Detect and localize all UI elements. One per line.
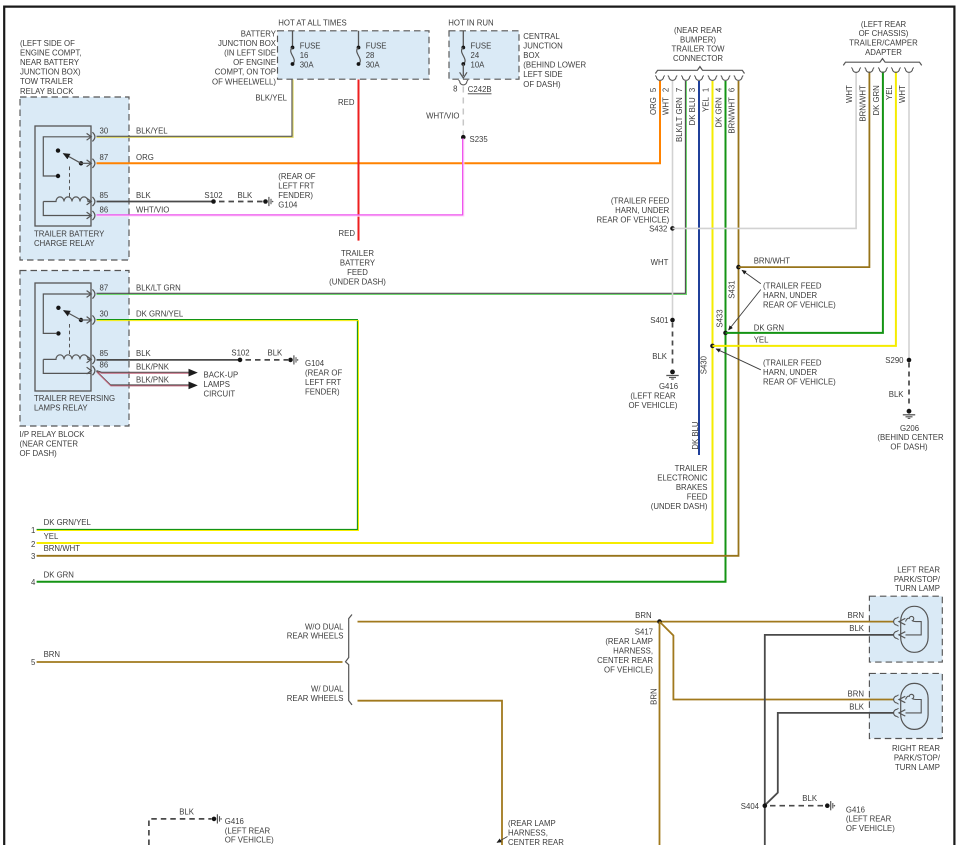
note: left rear park/stop/turn lamp xyxy=(894,565,941,593)
svg-text:FEED: FEED xyxy=(347,268,368,277)
svg-text:HARN, UNDER: HARN, UNDER xyxy=(615,206,670,215)
svg-text:BLK/YEL: BLK/YEL xyxy=(136,126,168,135)
svg-text:ENGINE COMPT,: ENGINE COMPT, xyxy=(20,48,82,57)
label ORG xyxy=(136,153,154,162)
splice S235 xyxy=(461,135,488,144)
note: trailer feed harness (S432) xyxy=(597,196,670,224)
I/P relay block (dashed) xyxy=(20,271,129,427)
stub wire 5 label xyxy=(31,650,60,667)
tow connector pin 3 (DK BLU) xyxy=(688,76,704,126)
svg-text:6: 6 xyxy=(728,88,737,92)
svg-text:BLK: BLK xyxy=(136,191,152,200)
ground G206 xyxy=(903,409,915,419)
splice S290 xyxy=(885,356,911,365)
svg-text:S235: S235 xyxy=(470,135,489,144)
label BLK/PNK (2) xyxy=(136,376,170,385)
right rear park/stop/turn lamp box xyxy=(869,673,942,738)
svg-text:HOT AT ALL TIMES: HOT AT ALL TIMES xyxy=(278,19,346,28)
svg-text:87: 87 xyxy=(100,153,109,162)
wire (unshown segment) C242B to S235 xyxy=(462,87,464,136)
arrow to back-up lamps circuit (2) xyxy=(189,382,198,390)
svg-text:1: 1 xyxy=(31,526,35,535)
wire BRN stub 5 xyxy=(37,661,343,663)
wire BLK relay K1 pin85 to S102 xyxy=(97,201,214,203)
svg-text:BRN/WHT: BRN/WHT xyxy=(859,85,868,122)
svg-text:RED: RED xyxy=(338,98,355,107)
svg-text:(REAR LAMP: (REAR LAMP xyxy=(605,637,653,646)
label BLK/PNK (1) xyxy=(136,362,170,371)
svg-text:LEFT SIDE: LEFT SIDE xyxy=(523,70,562,79)
wire ORG relay K1 pin87 to trailer tow connector pin5 xyxy=(97,81,661,164)
svg-text:TRAILER REVERSING: TRAILER REVERSING xyxy=(34,394,115,403)
relay K2 pin 85 xyxy=(87,349,109,364)
svg-text:(LEFT REAR: (LEFT REAR xyxy=(846,815,892,824)
svg-text:BLK: BLK xyxy=(889,390,905,399)
svg-text:DK BLU: DK BLU xyxy=(691,421,700,450)
svg-text:REAR OF VEHICLE): REAR OF VEHICLE) xyxy=(763,377,836,386)
svg-text:5: 5 xyxy=(649,87,658,92)
wire BLK/PNK relay K2 pin86 to back-up lamps circuit (2) xyxy=(97,371,190,386)
svg-text:BLK: BLK xyxy=(849,703,865,712)
svg-text:G206: G206 xyxy=(900,424,919,433)
ground G416 (left rear of vehicle) xyxy=(666,370,678,380)
svg-text:CHARGE RELAY: CHARGE RELAY xyxy=(34,239,95,248)
note: trailer feed harness (S431/S433) with arrows xyxy=(729,270,837,330)
svg-text:S102: S102 xyxy=(204,191,222,200)
svg-text:OF VEHICLE): OF VEHICLE) xyxy=(225,836,274,845)
svg-text:2: 2 xyxy=(31,540,35,549)
wire BLK (dashed) off-page to G416 bottom-left xyxy=(149,808,212,845)
note: central junction box location xyxy=(523,32,586,89)
wire DK BLU tow connector pin3 to trailer electronic brakes feed xyxy=(698,81,700,455)
relay K1 pin 30 xyxy=(43,126,109,176)
label BLK/YEL (at fuse) xyxy=(255,93,287,102)
svg-text:3: 3 xyxy=(31,552,35,561)
svg-text:BLK/YEL: BLK/YEL xyxy=(255,93,287,102)
svg-text:REAR OF VEHICLE): REAR OF VEHICLE) xyxy=(763,300,836,309)
svg-text:(BEHIND CENTER: (BEHIND CENTER xyxy=(877,433,944,442)
note: rear lamp harness (bottom) xyxy=(497,819,564,845)
label DK GRN/YEL xyxy=(136,310,184,319)
trailer battery charge relay K1 outline xyxy=(35,126,91,226)
svg-text:2: 2 xyxy=(662,88,671,92)
note: G416 left rear of vehicle (right) xyxy=(846,805,895,833)
svg-text:BRN: BRN xyxy=(848,611,864,620)
svg-text:HARN, UNDER: HARN, UNDER xyxy=(763,291,818,300)
svg-text:FUSE: FUSE xyxy=(300,42,321,51)
svg-text:(IN LEFT SIDE: (IN LEFT SIDE xyxy=(224,49,276,58)
svg-text:24: 24 xyxy=(471,51,480,60)
svg-text:86: 86 xyxy=(100,360,109,369)
label BRN (right lamp) xyxy=(848,690,864,699)
label BRN (rotated) xyxy=(649,688,658,704)
note: trailer tow connector location xyxy=(672,26,726,63)
svg-text:WHT: WHT xyxy=(651,258,669,267)
svg-text:BRN/WHT: BRN/WHT xyxy=(754,256,791,265)
svg-text:LEFT FRT: LEFT FRT xyxy=(278,182,314,191)
svg-text:TRAILER BATTERY: TRAILER BATTERY xyxy=(34,230,105,239)
svg-text:ELECTRONIC: ELECTRONIC xyxy=(657,473,708,482)
svg-text:28: 28 xyxy=(366,51,375,60)
note: trailer battery feed xyxy=(329,249,386,286)
svg-text:BRN: BRN xyxy=(635,611,651,620)
label DK BLU (rotated) xyxy=(691,421,700,450)
svg-text:HARNESS,: HARNESS, xyxy=(613,646,653,655)
wire BLK right lamp to S404 xyxy=(765,713,894,805)
svg-text:4: 4 xyxy=(715,87,724,92)
svg-text:YEL: YEL xyxy=(754,336,769,345)
svg-text:CENTER REAR: CENTER REAR xyxy=(508,838,564,845)
svg-text:S432: S432 xyxy=(649,225,667,234)
svg-text:G104: G104 xyxy=(305,359,325,368)
svg-text:OF CHASSIS): OF CHASSIS) xyxy=(859,29,909,38)
svg-text:(TRAILER FEED: (TRAILER FEED xyxy=(763,358,822,367)
stub wire 4 label xyxy=(31,570,74,587)
svg-text:(NEAR CENTER: (NEAR CENTER xyxy=(20,439,79,448)
svg-text:S433: S433 xyxy=(715,309,724,327)
battery junction box (fuse block) xyxy=(278,31,430,79)
svg-text:OF VEHICLE): OF VEHICLE) xyxy=(846,824,895,833)
note: I/P relay block location xyxy=(20,430,86,458)
svg-text:BLK/LT GRN: BLK/LT GRN xyxy=(136,284,181,293)
svg-text:DK GRN: DK GRN xyxy=(44,570,74,579)
svg-text:(TRAILER FEED: (TRAILER FEED xyxy=(763,281,822,290)
svg-text:(REAR OF: (REAR OF xyxy=(305,369,342,378)
svg-text:30A: 30A xyxy=(300,61,315,70)
relay K2 coil xyxy=(43,355,91,374)
svg-text:OF ENGINE: OF ENGINE xyxy=(233,58,276,67)
relay K1 coil xyxy=(43,197,91,216)
svg-text:NEAR BATTERY: NEAR BATTERY xyxy=(20,58,80,67)
label WHT/VIO xyxy=(426,111,459,120)
tow connector pin 4 (DK GRN) xyxy=(715,76,731,128)
wire BLK/YEL fuse16 to relay K1 pin30 xyxy=(97,80,294,138)
wire BRN/WHT tow connector pin6 down to stub 3 xyxy=(37,81,739,556)
svg-text:OF VEHICLE): OF VEHICLE) xyxy=(629,401,678,410)
svg-text:7: 7 xyxy=(675,88,684,92)
stub wire 3 label xyxy=(31,544,80,561)
note: G206 behind center of dash xyxy=(877,424,944,452)
svg-text:LAMPS: LAMPS xyxy=(204,380,230,389)
adapter pin (YEL) xyxy=(885,68,901,100)
svg-text:S431: S431 xyxy=(727,281,736,299)
svg-text:10A: 10A xyxy=(471,61,486,70)
svg-text:BLK: BLK xyxy=(136,349,152,358)
svg-text:COMPT, ON TOP: COMPT, ON TOP xyxy=(215,68,276,77)
note: back-up lamps circuit xyxy=(204,371,239,399)
svg-text:DK GRN/YEL: DK GRN/YEL xyxy=(136,310,184,319)
tow connector pin 7 (BLK/LT GRN) xyxy=(675,76,691,142)
svg-text:W/ DUAL: W/ DUAL xyxy=(311,685,344,694)
note: trailer feed harness (S430) with arrow xyxy=(716,349,836,387)
svg-text:ORG: ORG xyxy=(136,153,154,162)
svg-text:BRAKES: BRAKES xyxy=(676,483,708,492)
relay K1 pin 85 xyxy=(87,191,109,206)
svg-text:HARN, UNDER: HARN, UNDER xyxy=(763,368,818,377)
svg-text:85: 85 xyxy=(100,349,109,358)
wire BLK relay K2 pin85 to S102 xyxy=(97,349,241,360)
svg-text:S404: S404 xyxy=(741,802,760,811)
svg-text:FENDER): FENDER) xyxy=(278,191,313,200)
svg-text:HOT IN RUN: HOT IN RUN xyxy=(448,19,493,28)
wire BRN (w/o dual) to S417 and left rear lamp xyxy=(358,621,894,623)
svg-text:(REAR LAMP: (REAR LAMP xyxy=(508,819,556,828)
svg-text:TURN LAMP: TURN LAMP xyxy=(895,763,940,772)
tow trailer relay block (dashed) xyxy=(20,97,129,260)
svg-text:4: 4 xyxy=(31,578,36,587)
svg-text:1: 1 xyxy=(702,88,711,92)
svg-text:JUNCTION: JUNCTION xyxy=(523,41,562,50)
splice S430 xyxy=(700,344,715,375)
svg-text:JUNCTION BOX): JUNCTION BOX) xyxy=(20,68,81,77)
svg-text:S401: S401 xyxy=(650,316,668,325)
wire BRN (w/ dual) down off page xyxy=(358,701,503,845)
right rear lamp bulb xyxy=(894,683,929,729)
svg-text:BLK: BLK xyxy=(238,191,254,200)
ground G416 (bottom left) xyxy=(212,814,222,823)
wire BRN/WHT S431 to adapter pin2 xyxy=(739,72,870,268)
note: right rear park/stop/turn lamp xyxy=(892,744,941,772)
svg-text:BLK: BLK xyxy=(849,624,865,633)
svg-text:BLK/PNK: BLK/PNK xyxy=(136,376,170,385)
label BLK/LT GRN xyxy=(136,284,181,293)
note: battery junction box location xyxy=(212,29,277,86)
svg-text:CENTRAL: CENTRAL xyxy=(523,32,560,41)
wire BRN S417 branch to right rear lamp xyxy=(660,622,894,700)
svg-text:WHT/VIO: WHT/VIO xyxy=(426,111,459,120)
svg-text:DK GRN: DK GRN xyxy=(715,97,724,127)
splice S401 xyxy=(650,316,675,325)
label trailer reversing lamps relay xyxy=(34,394,115,413)
svg-text:BLK/PNK: BLK/PNK xyxy=(136,362,170,371)
note: tow trailer relay block location xyxy=(20,39,82,96)
svg-text:5: 5 xyxy=(31,658,36,667)
wire DK GRN S433 to adapter pin3 xyxy=(726,72,883,333)
svg-text:CONNECTOR: CONNECTOR xyxy=(673,54,723,63)
svg-text:(REAR OF: (REAR OF xyxy=(278,172,315,181)
fuse 24 10A xyxy=(460,31,492,78)
svg-text:FEED: FEED xyxy=(687,492,708,501)
svg-text:86: 86 xyxy=(100,205,109,214)
wire BLK (dashed) S102 to G104 xyxy=(246,348,289,360)
svg-text:ADAPTER: ADAPTER xyxy=(865,48,902,57)
label BRN/WHT xyxy=(754,256,791,265)
svg-text:TRAILER TOW: TRAILER TOW xyxy=(672,45,726,54)
svg-text:WHT: WHT xyxy=(845,85,854,103)
svg-text:WHT: WHT xyxy=(898,85,907,103)
splice S431 xyxy=(727,265,741,299)
tow connector pin 5 (ORG) xyxy=(649,76,665,115)
svg-text:(LEFT SIDE OF: (LEFT SIDE OF xyxy=(20,39,75,48)
svg-text:CIRCUIT: CIRCUIT xyxy=(204,389,236,398)
wire WHT tow connector pin2 down to S401 xyxy=(672,81,674,320)
label WHT/VIO xyxy=(136,205,169,214)
splice S433 xyxy=(715,309,728,335)
svg-text:LEFT FRT: LEFT FRT xyxy=(305,378,341,387)
svg-text:TURN LAMP: TURN LAMP xyxy=(895,584,940,593)
svg-text:REAR OF VEHICLE): REAR OF VEHICLE) xyxy=(597,215,670,224)
left rear lamp bulb xyxy=(894,606,929,652)
note: trailer/camper adapter location xyxy=(849,20,918,57)
relay K2 pin 86 xyxy=(87,360,109,375)
label BLK (left lamp) xyxy=(849,624,865,633)
svg-text:S102: S102 xyxy=(231,349,249,358)
label BRN (left lamp) xyxy=(848,611,864,620)
svg-text:PARK/STOP/: PARK/STOP/ xyxy=(894,575,941,584)
svg-text:CENTER REAR: CENTER REAR xyxy=(597,656,653,665)
trailer tow connector brace xyxy=(655,67,744,74)
ground G104 (second) xyxy=(288,355,298,364)
label YEL xyxy=(754,336,769,345)
svg-text:BLK: BLK xyxy=(802,794,818,803)
svg-text:BATTERY: BATTERY xyxy=(241,29,277,38)
tow connector pin 1 (YEL) xyxy=(702,76,718,112)
note: G416 left rear of vehicle xyxy=(629,382,679,410)
svg-text:S290: S290 xyxy=(885,356,904,365)
svg-text:PARK/STOP/: PARK/STOP/ xyxy=(894,754,941,763)
svg-text:BUMPER): BUMPER) xyxy=(680,35,716,44)
svg-text:JUNCTION BOX: JUNCTION BOX xyxy=(218,39,277,48)
svg-text:(LEFT REAR: (LEFT REAR xyxy=(630,392,676,401)
svg-text:87: 87 xyxy=(100,284,109,293)
svg-text:BLK: BLK xyxy=(179,808,195,817)
svg-text:30: 30 xyxy=(100,126,109,135)
wire BLK (dashed) S102 to G104 xyxy=(219,191,263,202)
relay K1 pin 87 xyxy=(87,153,109,168)
svg-text:BRN/WHT: BRN/WHT xyxy=(44,544,81,553)
svg-text:TRAILER: TRAILER xyxy=(341,249,374,258)
svg-text:WHT: WHT xyxy=(662,97,671,115)
svg-text:BRN: BRN xyxy=(649,688,658,704)
svg-text:DK BLU: DK BLU xyxy=(688,97,697,126)
svg-text:YEL: YEL xyxy=(885,85,894,100)
note: w/o dual rear wheels xyxy=(287,622,344,640)
adapter pin (BRN/WHT) xyxy=(859,68,875,122)
note: S417 rear lamp harness xyxy=(597,627,653,674)
svg-text:DK GRN: DK GRN xyxy=(872,85,881,115)
svg-text:BOX: BOX xyxy=(523,51,540,60)
svg-text:16: 16 xyxy=(300,51,309,60)
svg-text:ORG: ORG xyxy=(649,97,658,115)
stub wire 2 label xyxy=(31,532,59,549)
label trailer battery charge relay xyxy=(34,230,105,249)
svg-text:BACK-UP: BACK-UP xyxy=(204,371,239,380)
note: G416 left rear of vehicle (bottom left) xyxy=(225,817,274,845)
splice S417 xyxy=(635,611,662,624)
connector C242B pin 8 xyxy=(453,80,491,94)
svg-text:DK GRN/YEL: DK GRN/YEL xyxy=(44,518,92,527)
wire BRN S417 down (off page) xyxy=(659,622,661,845)
svg-text:LAMPS RELAY: LAMPS RELAY xyxy=(34,404,88,413)
svg-text:OF DASH): OF DASH) xyxy=(890,443,928,452)
svg-text:WHT/VIO: WHT/VIO xyxy=(136,205,169,214)
left rear park/stop/turn lamp box xyxy=(869,596,942,662)
note: G104 rear of left front fender xyxy=(278,172,315,210)
tow connector pin 6 (BRN/WHT) xyxy=(728,76,744,134)
stub wire 1 label xyxy=(31,518,92,535)
wire BLK (dashed) S401 to G416 xyxy=(652,323,672,367)
fuse 16 30A xyxy=(291,31,321,70)
svg-text:8: 8 xyxy=(453,85,457,94)
svg-text:G416: G416 xyxy=(846,805,865,814)
splice S432 xyxy=(649,225,675,234)
svg-text:S417: S417 xyxy=(635,627,653,636)
svg-text:REAR WHEELS: REAR WHEELS xyxy=(287,632,344,641)
svg-text:TRAILER/CAMPER: TRAILER/CAMPER xyxy=(849,39,918,48)
svg-text:DK GRN: DK GRN xyxy=(754,323,784,332)
svg-text:G416: G416 xyxy=(225,817,244,826)
svg-text:YEL: YEL xyxy=(44,532,59,541)
splice S404 xyxy=(741,802,767,811)
svg-text:BRN/WHT: BRN/WHT xyxy=(728,97,737,134)
svg-text:LEFT REAR: LEFT REAR xyxy=(897,565,940,574)
svg-text:BRN: BRN xyxy=(848,690,864,699)
arrow to back-up lamps circuit (1) xyxy=(189,369,198,377)
wire DK GRN/YEL relay K2 pin30 to stub 1 xyxy=(37,320,359,531)
svg-text:BLK: BLK xyxy=(268,348,284,357)
wire WHT S432 to trailer/camper adapter pin1 xyxy=(673,72,857,229)
label HOT IN RUN xyxy=(448,19,493,28)
svg-text:BLK/LT GRN: BLK/LT GRN xyxy=(675,97,684,142)
label BLK xyxy=(136,191,152,200)
svg-text:FENDER): FENDER) xyxy=(305,388,340,397)
wire BLK (dashed) S404 to G416 xyxy=(770,794,825,806)
svg-text:30: 30 xyxy=(100,310,109,319)
svg-text:BLK: BLK xyxy=(652,352,668,361)
trailer reversing lamps relay K2 outline xyxy=(35,283,91,391)
wire YEL tow connector pin1 down to stub 2 xyxy=(37,81,713,543)
svg-text:OF WHEELWELL): OF WHEELWELL) xyxy=(212,77,276,86)
splice S102 xyxy=(204,191,222,204)
svg-text:YEL: YEL xyxy=(702,97,711,112)
svg-text:G416: G416 xyxy=(659,382,678,391)
svg-text:BRN: BRN xyxy=(44,650,60,659)
label BLK/YEL (at relay) xyxy=(136,126,168,135)
wire YEL S430 to adapter pin4 xyxy=(713,72,896,346)
relay K2 pin 87 xyxy=(43,284,108,334)
svg-text:RED: RED xyxy=(339,229,356,238)
brace wire5 split xyxy=(346,615,353,705)
svg-text:RIGHT REAR: RIGHT REAR xyxy=(892,744,940,753)
note: w/ dual rear wheels xyxy=(287,685,344,703)
label WHT xyxy=(651,258,669,267)
svg-text:3: 3 xyxy=(688,88,697,92)
label DK GRN xyxy=(754,323,784,332)
adapter pin (DK GRN) xyxy=(872,68,888,116)
wire BLK left lamp to S404 xyxy=(765,635,894,845)
wire BLK (dashed) S290 to G206 xyxy=(889,363,909,407)
relay K2 switch contacts xyxy=(56,306,91,357)
label RED (upper) xyxy=(338,98,355,107)
adapter pin (WHT) xyxy=(845,68,861,103)
tow connector pin 2 (WHT) xyxy=(662,76,678,115)
svg-text:(LEFT REAR: (LEFT REAR xyxy=(225,826,271,835)
svg-text:(UNDER DASH): (UNDER DASH) xyxy=(329,277,386,286)
svg-text:OF VEHICLE): OF VEHICLE) xyxy=(604,665,653,674)
label RED (lower) xyxy=(339,229,356,238)
svg-text:I/P RELAY BLOCK: I/P RELAY BLOCK xyxy=(20,430,86,439)
svg-text:FUSE: FUSE xyxy=(366,42,387,51)
trailer/camper adapter brace xyxy=(843,59,921,66)
note: G104 rear of left front fender (second) xyxy=(305,359,342,397)
svg-text:(LEFT REAR: (LEFT REAR xyxy=(861,20,907,29)
adapter pin (WHT) xyxy=(898,68,914,103)
svg-text:OF DASH): OF DASH) xyxy=(523,80,561,89)
svg-text:TOW TRAILER: TOW TRAILER xyxy=(20,77,73,86)
svg-text:RELAY BLOCK: RELAY BLOCK xyxy=(20,87,74,96)
wire BLK/LT GRN relay K2 pin87 to tow connector pin7 xyxy=(97,81,687,295)
svg-text:85: 85 xyxy=(100,191,109,200)
